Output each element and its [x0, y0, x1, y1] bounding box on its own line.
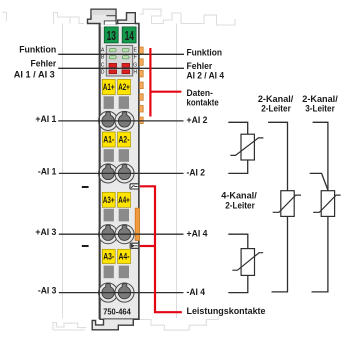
- LED C2: [122, 63, 130, 67]
- RTD sensor AI4 (2-wire): [228, 234, 263, 292]
- svg-text:13: 13: [107, 29, 116, 43]
- power contact blade left lower: [82, 245, 89, 247]
- wire Fehler: [58, 67, 184, 69]
- svg-text:-AI 3: -AI 3: [38, 286, 57, 297]
- module left edge redraw: [98, 24, 100, 320]
- left neighbour vertical: [62, 24, 64, 319]
- svg-text:D: D: [101, 70, 105, 76]
- wire +AI1/+AI2: [58, 120, 183, 122]
- data contacts (orange): [140, 47, 144, 124]
- svg-text:-AI 2: -AI 2: [187, 168, 206, 179]
- svg-text:Funktion: Funktion: [19, 45, 56, 56]
- clamp ports row 4: [99, 283, 135, 302]
- right neighbour bottom: [140, 316, 219, 330]
- orange side bar: [135, 208, 139, 240]
- clamp ports row 2: [99, 164, 135, 183]
- right neighbour vertical: [176, 24, 178, 319]
- svg-text:A3+: A3+: [103, 195, 115, 205]
- svg-text:2-Leiter: 2-Leiter: [225, 200, 255, 211]
- marking 13: [104, 27, 118, 43]
- RTD sensor column 2-Kanal/3-Leiter: [310, 122, 341, 292]
- marking 14: [122, 27, 136, 43]
- module top seam: [106, 23, 139, 25]
- LED D1: [109, 70, 117, 74]
- signal wires: [58, 54, 184, 292]
- svg-text:A2-: A2-: [119, 135, 130, 145]
- svg-text:14: 14: [125, 29, 134, 43]
- right neighbour top: [140, 9, 236, 25]
- svg-text:A1-: A1-: [103, 135, 114, 145]
- left neighbour bottom: [53, 323, 86, 331]
- adjacent module outlines (faint): [2, 9, 235, 330]
- svg-text:750-464: 750-464: [103, 306, 131, 316]
- svg-text:2-Leiter: 2-Leiter: [261, 104, 291, 115]
- terminal row 1: A1+ A2+: [102, 79, 130, 109]
- clamp ports row 3: [99, 225, 135, 244]
- white band: [101, 25, 139, 27]
- module bottom seam: [104, 318, 140, 320]
- clamp ports row 1: [99, 111, 135, 130]
- svg-text:A2+: A2+: [118, 82, 130, 92]
- svg-text:Fehler: Fehler: [31, 59, 57, 70]
- svg-text:+AI 3: +AI 3: [35, 227, 56, 238]
- wire -AI3/-AI4: [59, 292, 184, 294]
- svg-text:E: E: [133, 48, 137, 54]
- LED B1: [109, 56, 116, 59]
- svg-text:+AI 1: +AI 1: [35, 114, 57, 125]
- svg-text:H: H: [133, 70, 137, 76]
- module body with latch and feet: [88, 9, 140, 330]
- power contact icon upper: [130, 184, 139, 189]
- svg-text:AI 1 / AI 3: AI 1 / AI 3: [14, 69, 55, 80]
- left neighbour top: [2, 12, 84, 23]
- svg-text:AI 2 / AI 4: AI 2 / AI 4: [187, 71, 225, 82]
- svg-text:F: F: [134, 55, 137, 61]
- LED A1: [109, 49, 116, 52]
- svg-text:A3-: A3-: [103, 252, 114, 262]
- svg-text:A4-: A4-: [119, 252, 130, 262]
- LED block: [106, 45, 132, 76]
- wire -AI1/-AI2: [59, 172, 184, 174]
- red power contact marker: [140, 186, 182, 312]
- LED D2: [122, 70, 130, 74]
- svg-text:+AI 4: +AI 4: [187, 228, 209, 239]
- LED B2: [122, 56, 129, 59]
- white box at latch bottom: [104, 21, 116, 25]
- power contact blade left upper: [82, 186, 89, 188]
- power contact icon lower: [130, 243, 139, 248]
- terminal row 2: A1- A2-: [102, 132, 130, 162]
- svg-text:Funktion: Funktion: [187, 47, 223, 58]
- red data contact marker: [150, 48, 181, 117]
- svg-text:3-Leiter: 3-Leiter: [305, 104, 335, 115]
- wire Funktion: [58, 53, 184, 55]
- svg-text:B: B: [101, 55, 105, 61]
- svg-text:+AI 2: +AI 2: [187, 115, 208, 126]
- svg-text:A: A: [101, 48, 105, 54]
- svg-text:-AI 4: -AI 4: [187, 287, 206, 298]
- LED A2: [122, 49, 129, 52]
- terminal row 4: A3- A4-: [102, 249, 130, 278]
- terminal row 3: A3+ A4+: [102, 192, 130, 221]
- svg-text:A4+: A4+: [118, 195, 130, 205]
- RTD sensor column 2-Kanal/2-Leiter: [268, 122, 301, 292]
- svg-text:Leistungskontakte: Leistungskontakte: [187, 306, 266, 317]
- RTD sensor AI2 (2-wire): [228, 122, 263, 173]
- LED C1: [109, 63, 117, 67]
- svg-text:kontakte: kontakte: [187, 98, 219, 109]
- module right edge redraw: [138, 24, 140, 320]
- svg-text:A1+: A1+: [103, 82, 115, 92]
- wire +AI3/+AI4: [59, 233, 184, 235]
- svg-text:-AI 1: -AI 1: [38, 166, 57, 177]
